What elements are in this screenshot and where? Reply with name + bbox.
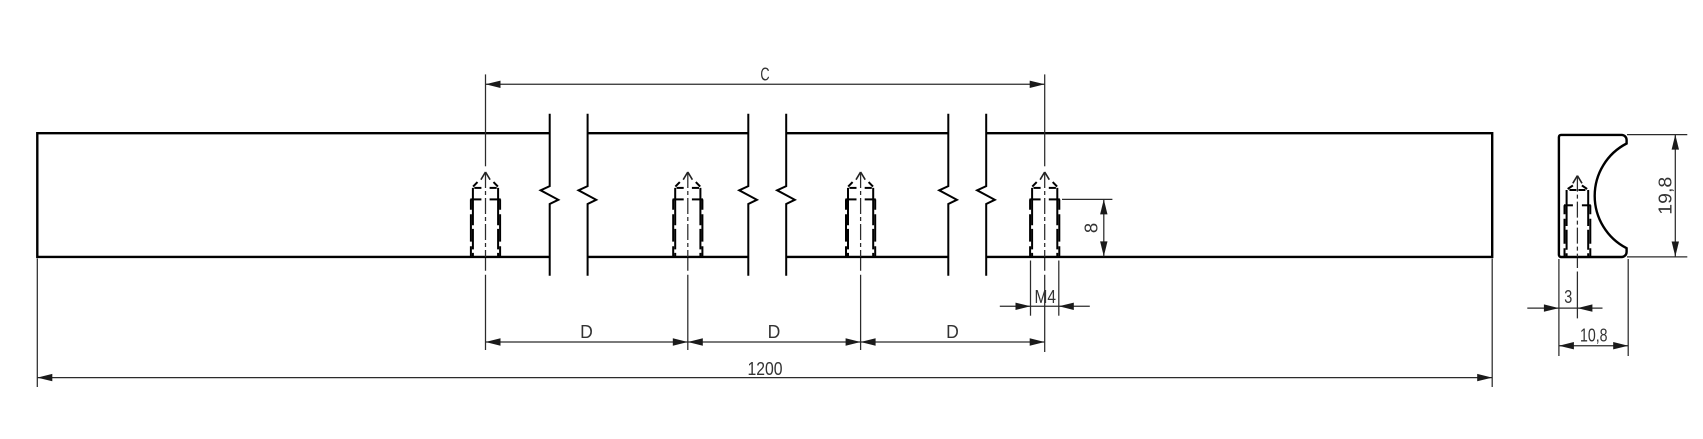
centerline hole 4 — [1044, 172, 1046, 257]
section outline — [1559, 135, 1627, 257]
break line 2b — [777, 114, 795, 276]
arrow 1200 right — [1477, 374, 1492, 381]
dimension line 10,8 — [1559, 345, 1628, 347]
section centerline arrow — [1573, 176, 1582, 184]
tapped hole 3 — [845, 182, 875, 257]
tapped hole 2 — [673, 182, 703, 257]
thread depth end dashes — [1564, 204, 1573, 206]
thread major diameter hidden lines — [1564, 205, 1566, 256]
break line 1b — [579, 114, 597, 276]
dimension line 8 — [1103, 199, 1105, 256]
break line 2a — [739, 114, 757, 276]
arrow D mid 2 right — [846, 338, 861, 345]
extension line 1200 right — [1491, 259, 1493, 388]
extension line M4 right — [1058, 261, 1060, 316]
tapped hole 4 — [1030, 182, 1060, 257]
arrow 1200 left — [37, 374, 52, 381]
arrow D mid 1 right — [673, 338, 688, 345]
arrow C left — [486, 81, 501, 88]
dimension line 3 — [1527, 307, 1602, 309]
bar outline right portion — [986, 133, 1492, 257]
dimension line 1200 — [37, 377, 1492, 379]
break line 3b — [977, 114, 995, 276]
break line 1a — [541, 114, 559, 276]
extension line 10,8 right — [1627, 259, 1629, 356]
arrow D mid 2 left — [861, 338, 876, 345]
svg-text:10,8: 10,8 — [1580, 325, 1608, 346]
arrow D mid 1 left — [688, 338, 703, 345]
centerline hole 2 — [687, 172, 689, 257]
extension line 3 left — [1558, 259, 1560, 356]
arrow M4 left — [1016, 303, 1031, 310]
centerline arrow hole 2 — [683, 172, 692, 180]
extension line 19,8 top — [1627, 134, 1687, 136]
tap drill diameter hidden lines — [1566, 190, 1568, 257]
break lines — [541, 114, 995, 276]
arrow 8 top — [1100, 199, 1107, 214]
dimension line D — [486, 341, 1045, 343]
break line 3a — [939, 114, 957, 276]
extension line 8 top — [1062, 198, 1112, 200]
drill depth end dashes — [1569, 189, 1576, 191]
svg-text:D: D — [768, 321, 781, 342]
section hole centerline — [1576, 176, 1578, 319]
extension line 19,8 bottom — [1627, 256, 1687, 258]
arrow 8 bottom — [1100, 241, 1107, 256]
svg-text:C: C — [760, 64, 769, 85]
svg-text:3: 3 — [1564, 286, 1572, 307]
arrow 19,8 top — [1672, 135, 1679, 150]
bar outline middle segment 2 — [786, 133, 948, 257]
svg-text:M4: M4 — [1034, 286, 1056, 307]
bar outline left portion — [37, 133, 549, 257]
arrow D end right — [1030, 338, 1045, 345]
svg-text:19,8: 19,8 — [1654, 177, 1675, 215]
extension line 1200 left — [36, 259, 38, 388]
centerline hole 1 — [485, 172, 487, 257]
svg-text:D: D — [580, 321, 593, 342]
centerline arrow hole 3 — [856, 172, 865, 180]
bar outline middle segment 1 — [588, 133, 749, 257]
svg-text:D: D — [946, 321, 959, 342]
arrow M4 right — [1059, 303, 1074, 310]
arrow 19,8 bottom — [1672, 242, 1679, 257]
drill point cone dashes — [1568, 185, 1573, 189]
section tapped hole M4 — [1564, 185, 1591, 256]
tapped hole 1 — [470, 182, 500, 257]
dimension line M4 — [1000, 305, 1090, 307]
centerline arrow hole 1 — [481, 172, 490, 180]
arrow C right — [1030, 81, 1045, 88]
arrow 10,8 right — [1613, 342, 1628, 349]
svg-text:8: 8 — [1081, 223, 1102, 233]
centerline arrow hole 4 — [1040, 172, 1049, 180]
svg-text:1200: 1200 — [748, 358, 783, 379]
arrow D end left — [486, 338, 501, 345]
dimension line C — [486, 83, 1045, 85]
extension line C right — [1044, 74, 1046, 166]
dimension line 19,8 — [1674, 135, 1676, 257]
extension line M4 left — [1030, 261, 1032, 316]
arrow 10,8 left — [1559, 342, 1574, 349]
arrow 3 right — [1577, 304, 1592, 311]
centerline hole 3 — [860, 172, 862, 257]
hole centerlines — [486, 172, 1045, 352]
extension line C left — [485, 74, 487, 166]
arrow 3 left — [1544, 304, 1559, 311]
